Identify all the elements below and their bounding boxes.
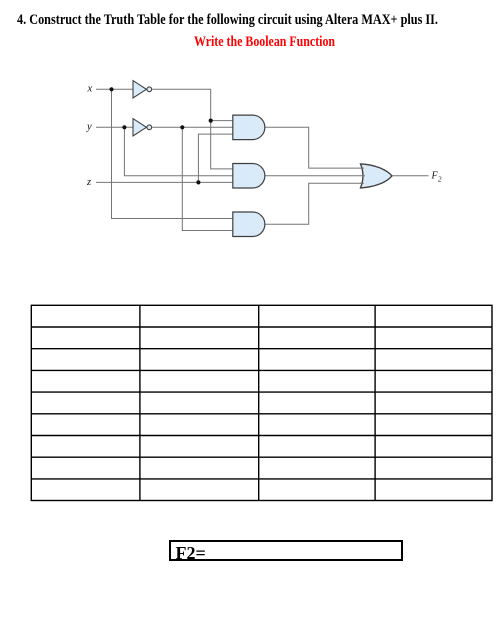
svg-text:z: z (86, 177, 91, 188)
svg-text:y: y (86, 121, 92, 132)
svg-text:2: 2 (438, 175, 442, 183)
svg-text:x: x (87, 83, 93, 94)
